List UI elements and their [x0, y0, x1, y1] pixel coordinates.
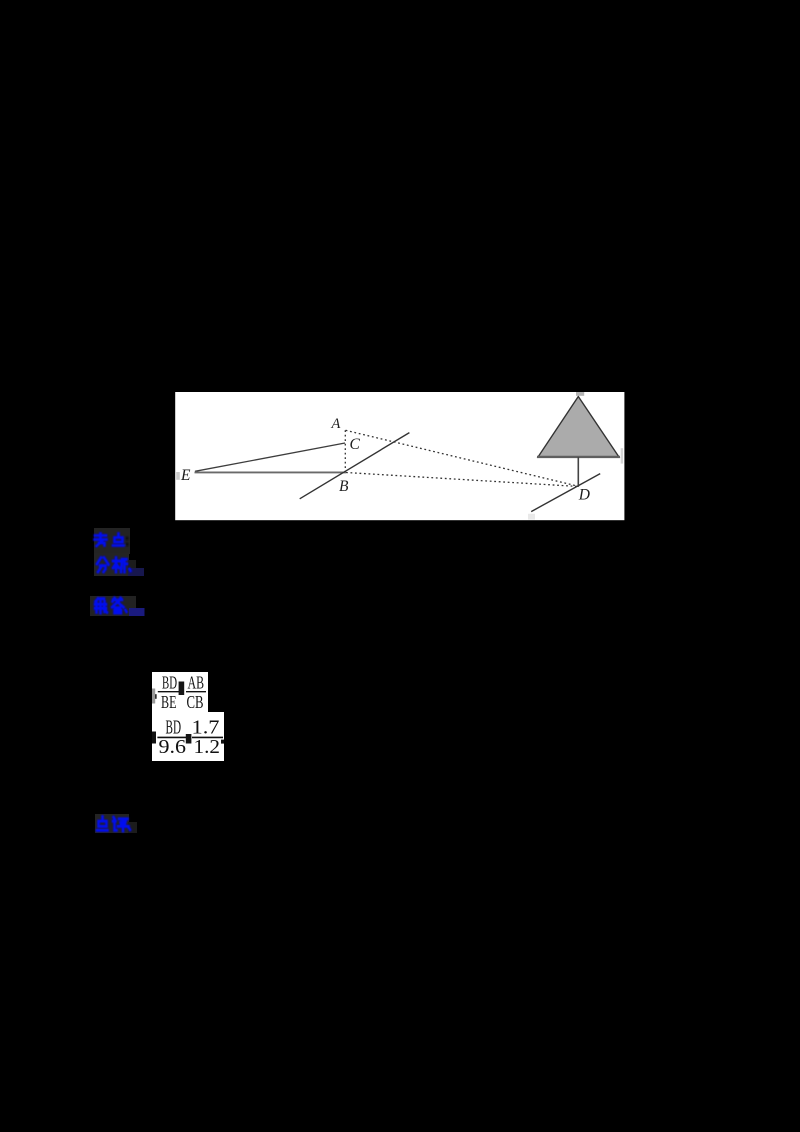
formula panel 2 [152, 712, 224, 761]
dotted line B-D [346, 473, 578, 487]
formula1 equals blob [179, 682, 185, 696]
dotted vertical A-B [344, 430, 346, 472]
navy smear after label3 [129, 608, 145, 616]
svg-text:AB: AB [188, 673, 205, 693]
svg-text:E: E [180, 467, 191, 484]
blue heading jieda [95, 598, 127, 613]
mirror line at B [300, 433, 410, 499]
formula2 bar left [157, 736, 186, 738]
formula2 equals blob [186, 734, 192, 744]
svg-text:BE: BE [161, 692, 177, 712]
formula1 bar left [158, 691, 180, 693]
svg-text:A: A [331, 416, 341, 432]
ghost block label3 [90, 596, 136, 616]
svg-text:9.6: 9.6 [159, 737, 187, 758]
navy smear after label2 [128, 568, 144, 576]
formula1 left dot [153, 694, 156, 699]
mirror line at D [531, 474, 600, 512]
svg-text:1.2: 1.2 [194, 737, 221, 758]
white figure panel [175, 392, 624, 520]
svg-text:D: D [578, 487, 590, 504]
svg-text:BD: BD [166, 717, 182, 738]
ghost block label1 [94, 528, 130, 554]
svg-text:1.7: 1.7 [192, 717, 220, 738]
formula1 left gray bar [152, 689, 155, 704]
svg-text:BD: BD [162, 673, 177, 693]
svg-text:CB: CB [187, 692, 204, 712]
tree trunk [577, 457, 579, 487]
dotted line A-D [346, 430, 579, 486]
formula2 bar right [192, 736, 223, 738]
blue heading dianping [97, 817, 130, 831]
ghost block label4b [128, 822, 137, 833]
tree crown triangle [538, 397, 619, 458]
svg-text:C: C [350, 436, 361, 453]
formula2 left tick [152, 732, 156, 744]
ghost block label4 [95, 814, 129, 833]
selection handle above tree apex [576, 392, 584, 396]
blue heading kaodian [95, 534, 128, 547]
tree base heavy edge [537, 456, 620, 458]
formula panel 1 [152, 672, 208, 712]
solid line E-B [195, 471, 347, 473]
selection handle right edge [621, 448, 623, 463]
ghost block label2b [128, 560, 136, 568]
selection handle at E [176, 472, 180, 480]
selection smudge at D line end [528, 514, 535, 520]
formula2 right tick [221, 740, 224, 744]
blue heading fenxi [97, 558, 131, 572]
formula1 bar right [186, 691, 206, 693]
solid line E-C [195, 443, 345, 471]
ghost block label2 [94, 553, 129, 576]
svg-text:B: B [339, 478, 349, 495]
